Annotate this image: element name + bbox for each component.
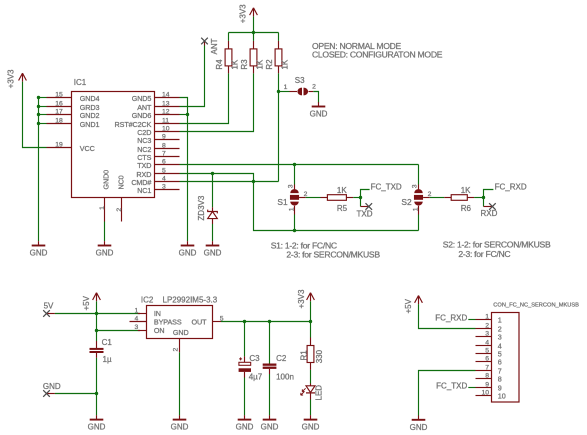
svg-text:GND: GND (88, 423, 106, 432)
svg-text:R5: R5 (337, 204, 348, 213)
wire +3V3 rail above resistors (229, 16, 279, 41)
resistor R6 (444, 186, 474, 213)
wire R1 to LED (310, 370, 312, 384)
junction dot (37, 105, 40, 108)
svg-text:R1: R1 (300, 350, 309, 361)
power +5V symbol connector (404, 296, 423, 314)
svg-text:3: 3 (135, 324, 139, 331)
resistor R5 (321, 186, 354, 213)
note text open/closed modes (312, 41, 443, 60)
capacitor C1 (90, 338, 113, 364)
junction dot zener tap (211, 172, 214, 175)
svg-text:+3V3: +3V3 (238, 4, 247, 23)
junction dot S3 tap (277, 90, 280, 93)
wire C2 to ground (269, 374, 271, 415)
svg-text:1: 1 (412, 207, 419, 211)
svg-text:5V: 5V (44, 302, 54, 311)
wire C3 top (244, 322, 246, 357)
svg-text:GND: GND (43, 382, 61, 391)
connector outside pin numbers (481, 313, 489, 396)
resistor R4 (215, 41, 240, 73)
wire C2D to R3 (180, 73, 254, 131)
svg-text:2: 2 (173, 348, 180, 352)
junction dot GND label tap (95, 392, 98, 395)
wire TXD row to S1 pin3 and S2 pin3 (180, 165, 419, 185)
svg-text:S2: S2 (401, 197, 412, 207)
wire S3 pin2 to ground (313, 92, 318, 103)
wire RST#C2CK to R4 (180, 73, 229, 123)
note text S2 jumper modes (443, 240, 551, 260)
wire 5V to IC2 IN (55, 313, 140, 315)
GND net red stub (47, 393, 55, 395)
IC1 left pin stubs 15-19 (47, 98, 72, 148)
solder jumper S2 (401, 184, 431, 214)
svg-text:GND: GND (179, 249, 197, 258)
svg-text:LED: LED (315, 385, 324, 401)
solder jumper S3 (284, 76, 316, 95)
svg-text:ANT: ANT (210, 38, 219, 54)
junction dot FC_RXD (482, 196, 485, 199)
svg-text:GND: GND (310, 110, 328, 119)
wire FC_RXD to pin1 (468, 319, 475, 321)
wire GND5 to ground (180, 98, 188, 242)
ground symbol below pins 15-18 (30, 241, 48, 258)
wire RXD open stub (483, 198, 485, 207)
svg-text:5: 5 (162, 168, 166, 175)
junction dot R1/+3V3 (309, 320, 312, 323)
power +3V3 symbol left (7, 69, 27, 88)
svg-text:1: 1 (135, 308, 139, 315)
svg-text:VCC: VCC (80, 144, 95, 153)
svg-text:2: 2 (485, 322, 489, 329)
svg-text:13: 13 (162, 101, 170, 108)
svg-text:NC3: NC3 (137, 136, 151, 145)
wire ground bus pins 15-18 (39, 98, 47, 242)
svg-text:GND0: GND0 (101, 170, 110, 190)
GND open-end cross (43, 390, 50, 397)
svg-text:+3V3: +3V3 (7, 69, 16, 88)
svg-text:OUT: OUT (192, 318, 208, 327)
IC2 pin names (154, 309, 207, 337)
svg-text:17: 17 (55, 109, 63, 116)
svg-text:10: 10 (162, 126, 170, 133)
svg-text:NC1: NC1 (137, 186, 151, 195)
ground symbol below GND5 wire (179, 241, 197, 258)
svg-text:R2: R2 (265, 59, 274, 70)
wire +5V vertical to C1 (96, 301, 98, 341)
power +3V3 symbol bottom (297, 289, 314, 308)
ANT open end stub (204, 41, 206, 46)
svg-text:FC_TXD: FC_TXD (371, 183, 402, 192)
svg-text:IC2: IC2 (141, 296, 154, 305)
IC1 right pin stubs 14-3 (155, 98, 180, 190)
svg-text:11: 11 (162, 118, 169, 125)
junction dot C3 (243, 320, 246, 323)
wire R6 to FC_RXD node (474, 197, 483, 199)
IC2 pin stubs (130, 314, 222, 353)
svg-text:S3: S3 (295, 76, 305, 85)
svg-text:FC_TXD: FC_TXD (436, 382, 467, 391)
svg-text:16: 16 (55, 101, 63, 108)
wire FC_RXD label stub (484, 190, 494, 198)
svg-text:4: 4 (135, 316, 139, 323)
power +5V symbol (82, 293, 101, 311)
svg-text:1: 1 (498, 315, 502, 324)
ground symbol C2 (261, 415, 279, 432)
RXD stub red part (484, 206, 493, 208)
junction dot TXD at S1 (293, 163, 296, 166)
junction dot FC_TXD (359, 196, 362, 199)
TXD stub red part (361, 206, 369, 208)
IC2 box (147, 306, 213, 339)
svg-text:1: 1 (284, 84, 288, 91)
svg-text:GND: GND (171, 423, 189, 432)
svg-text:FC_RXD: FC_RXD (495, 183, 527, 192)
junction dot +3V3 rail (252, 31, 255, 34)
ground symbol C3 (236, 415, 254, 432)
5V net red stub (47, 313, 55, 315)
svg-text:C2: C2 (276, 354, 287, 363)
ground symbol below IC1 pin1 (96, 241, 114, 258)
svg-text:3: 3 (485, 330, 489, 337)
svg-text:4µ7: 4µ7 (249, 373, 263, 382)
wire C3 to ground (244, 378, 246, 416)
wire ON pin (97, 330, 141, 332)
svg-text:GND: GND (173, 328, 189, 337)
ground symbol connector (410, 415, 428, 432)
svg-text:1µ: 1µ (103, 355, 112, 364)
svg-text:7: 7 (485, 364, 489, 371)
svg-text:+5V: +5V (82, 295, 91, 310)
svg-text:1: 1 (288, 207, 295, 211)
ground symbol zener (204, 241, 222, 258)
svg-text:8: 8 (162, 143, 166, 150)
svg-text:18: 18 (55, 118, 63, 125)
svg-text:GND: GND (96, 249, 114, 258)
svg-text:4: 4 (162, 176, 166, 183)
svg-text:6: 6 (498, 357, 502, 366)
svg-text:1K: 1K (231, 59, 240, 69)
svg-text:+5V: +5V (404, 298, 413, 313)
svg-text:1K: 1K (461, 186, 471, 195)
svg-text:ZD3V3: ZD3V3 (197, 195, 206, 220)
svg-text:1K: 1K (256, 59, 265, 69)
IC1 bottom pin stubs 1,2 (105, 198, 122, 222)
wire R2 bottom to CMD row (278, 73, 280, 181)
IC1 pin names right (115, 94, 152, 195)
wire ANT net (180, 46, 205, 107)
ground symbol below C1 (88, 415, 106, 432)
svg-text:1K: 1K (281, 59, 290, 69)
wire S3 pin1 (279, 91, 290, 93)
svg-text:R3: R3 (240, 59, 249, 70)
svg-text:GND: GND (204, 249, 222, 258)
resistor R3 (240, 41, 265, 73)
svg-text:GND: GND (236, 423, 254, 432)
wire LED to ground (310, 400, 312, 416)
svg-text:12: 12 (162, 109, 170, 116)
svg-text:1: 1 (99, 206, 106, 210)
IC2 pin numbers (135, 308, 224, 332)
wire GND6 join (180, 114, 188, 116)
svg-text:GND4: GND4 (80, 94, 100, 103)
wire IC2 pin2 to ground (179, 352, 181, 415)
svg-text:ON: ON (154, 326, 165, 335)
wire S2 pin2 to R6 (430, 197, 445, 199)
zener diode ZD3V3 (197, 174, 217, 242)
svg-text:4: 4 (485, 339, 489, 346)
svg-text:GND2: GND2 (80, 111, 100, 120)
svg-text:15: 15 (55, 92, 63, 99)
ANT open-end cross (201, 38, 208, 45)
5V open-end cross (43, 310, 50, 317)
connector CON_FC_NC_SERCON_MKUSB box (492, 313, 520, 403)
wire GND label to C1 net (55, 393, 97, 395)
svg-text:3: 3 (288, 184, 295, 188)
wire FC_TXD label stub (361, 190, 370, 198)
wire R5 to FC_TXD node (353, 197, 360, 199)
svg-text:GND5: GND5 (132, 94, 152, 103)
svg-text:10: 10 (498, 391, 506, 400)
svg-text:3: 3 (498, 332, 502, 341)
svg-text:2-3: for SERCON/MKUSB: 2-3: for SERCON/MKUSB (286, 250, 380, 260)
svg-text:3: 3 (162, 184, 166, 191)
svg-text:C3: C3 (249, 354, 260, 363)
svg-text:IC1: IC1 (74, 78, 87, 87)
RXD open-end cross (489, 203, 496, 210)
wire IC1 pin1 to ground (104, 222, 106, 242)
junction dot ON tap (95, 329, 98, 332)
svg-text:8: 8 (498, 374, 502, 383)
wire CMD row (180, 181, 279, 183)
svg-text:14: 14 (162, 92, 170, 99)
svg-text:GND6: GND6 (132, 111, 152, 120)
svg-text:100n: 100n (276, 373, 294, 382)
svg-text:C1: C1 (102, 338, 113, 347)
ground symbol S3 (310, 102, 328, 119)
svg-text:19: 19 (55, 142, 63, 149)
wire pin7 to ground (419, 371, 476, 416)
svg-text:TXD: TXD (137, 161, 151, 170)
capacitor C2 (263, 354, 294, 382)
svg-text:2-3: for FC/NC: 2-3: for FC/NC (458, 249, 510, 259)
svg-text:GND: GND (261, 423, 279, 432)
solder jumper S1 (277, 184, 307, 214)
wire S1 pin2 to R5 (306, 197, 321, 199)
connector pin stubs (476, 320, 492, 396)
ground symbol IC2 (171, 415, 189, 432)
resistor R1 (300, 338, 325, 370)
svg-text:S2: 1-2: for SERCON/MKUSB: S2: 1-2: for SERCON/MKUSB (443, 240, 551, 250)
svg-text:TXD: TXD (357, 209, 373, 218)
svg-text:R4: R4 (215, 59, 224, 70)
power +3V3 symbol top (238, 4, 257, 23)
wire RXD row (180, 174, 419, 231)
svg-text:9: 9 (162, 134, 166, 141)
junction dot RXD/CMD cross (252, 180, 255, 183)
wire OUT rail (221, 321, 311, 323)
svg-text:330: 330 (315, 349, 324, 363)
junction dot C2 (268, 320, 271, 323)
wire +5V to pin2 (419, 304, 476, 328)
note text S1 jumper modes (271, 240, 381, 259)
svg-text:1: 1 (485, 313, 489, 320)
IC1 box (72, 92, 155, 198)
svg-text:5: 5 (485, 347, 489, 354)
wire R1 top (310, 322, 312, 338)
svg-text:10: 10 (481, 389, 489, 396)
svg-text:LP2992IM5-3.3: LP2992IM5-3.3 (163, 296, 218, 305)
svg-text:1K: 1K (337, 186, 347, 195)
svg-text:RXD: RXD (480, 209, 497, 218)
capacitor C3 polarized (239, 354, 263, 382)
svg-text:3: 3 (412, 184, 419, 188)
svg-text:FC_RXD: FC_RXD (435, 314, 467, 323)
svg-text:6: 6 (162, 159, 166, 166)
IC1 pin numbers right (162, 92, 170, 191)
svg-text:GND: GND (302, 423, 320, 432)
IC1 pin names left (80, 94, 100, 153)
wire +3V3 to OUT rail (310, 301, 312, 321)
wire +3V3 to VCC pin19 (23, 82, 47, 148)
junction dot (37, 113, 40, 116)
svg-text:GND1: GND1 (80, 120, 100, 129)
svg-text:GND: GND (410, 423, 428, 432)
connector inside pin names (498, 315, 506, 400)
junction dot 5V rail (95, 312, 98, 315)
svg-text:CLOSED: CONFIGURATON MODE: CLOSED: CONFIGURATON MODE (312, 50, 443, 60)
wire TXD open stub (360, 198, 362, 207)
wire FC_TXD to pin9 (468, 387, 475, 389)
junction dot (37, 122, 40, 125)
junction dot GND6 (186, 113, 189, 116)
svg-text:6: 6 (485, 355, 489, 362)
svg-text:NC0: NC0 (117, 175, 126, 189)
svg-text:S1: S1 (277, 197, 288, 207)
resistor R2 (265, 41, 290, 73)
svg-text:GND: GND (30, 249, 48, 258)
wire C2 top (269, 322, 271, 364)
svg-text:8: 8 (485, 372, 489, 379)
junction dot S1 pin1 (293, 229, 296, 232)
junction dot (37, 96, 40, 99)
svg-text:2: 2 (116, 208, 123, 212)
ground symbol LED (302, 415, 320, 432)
svg-text:+3V3: +3V3 (297, 289, 306, 308)
wire C1 to ground (96, 358, 98, 415)
svg-text:7: 7 (162, 151, 166, 158)
svg-text:9: 9 (485, 381, 489, 388)
svg-text:2: 2 (312, 84, 316, 91)
svg-text:CON_FC_NC_SERCON_MKUSB: CON_FC_NC_SERCON_MKUSB (493, 303, 579, 309)
svg-text:R6: R6 (461, 204, 472, 213)
IC1 pin numbers left (55, 92, 63, 149)
LED (301, 384, 324, 401)
TXD open-end cross (366, 203, 373, 210)
